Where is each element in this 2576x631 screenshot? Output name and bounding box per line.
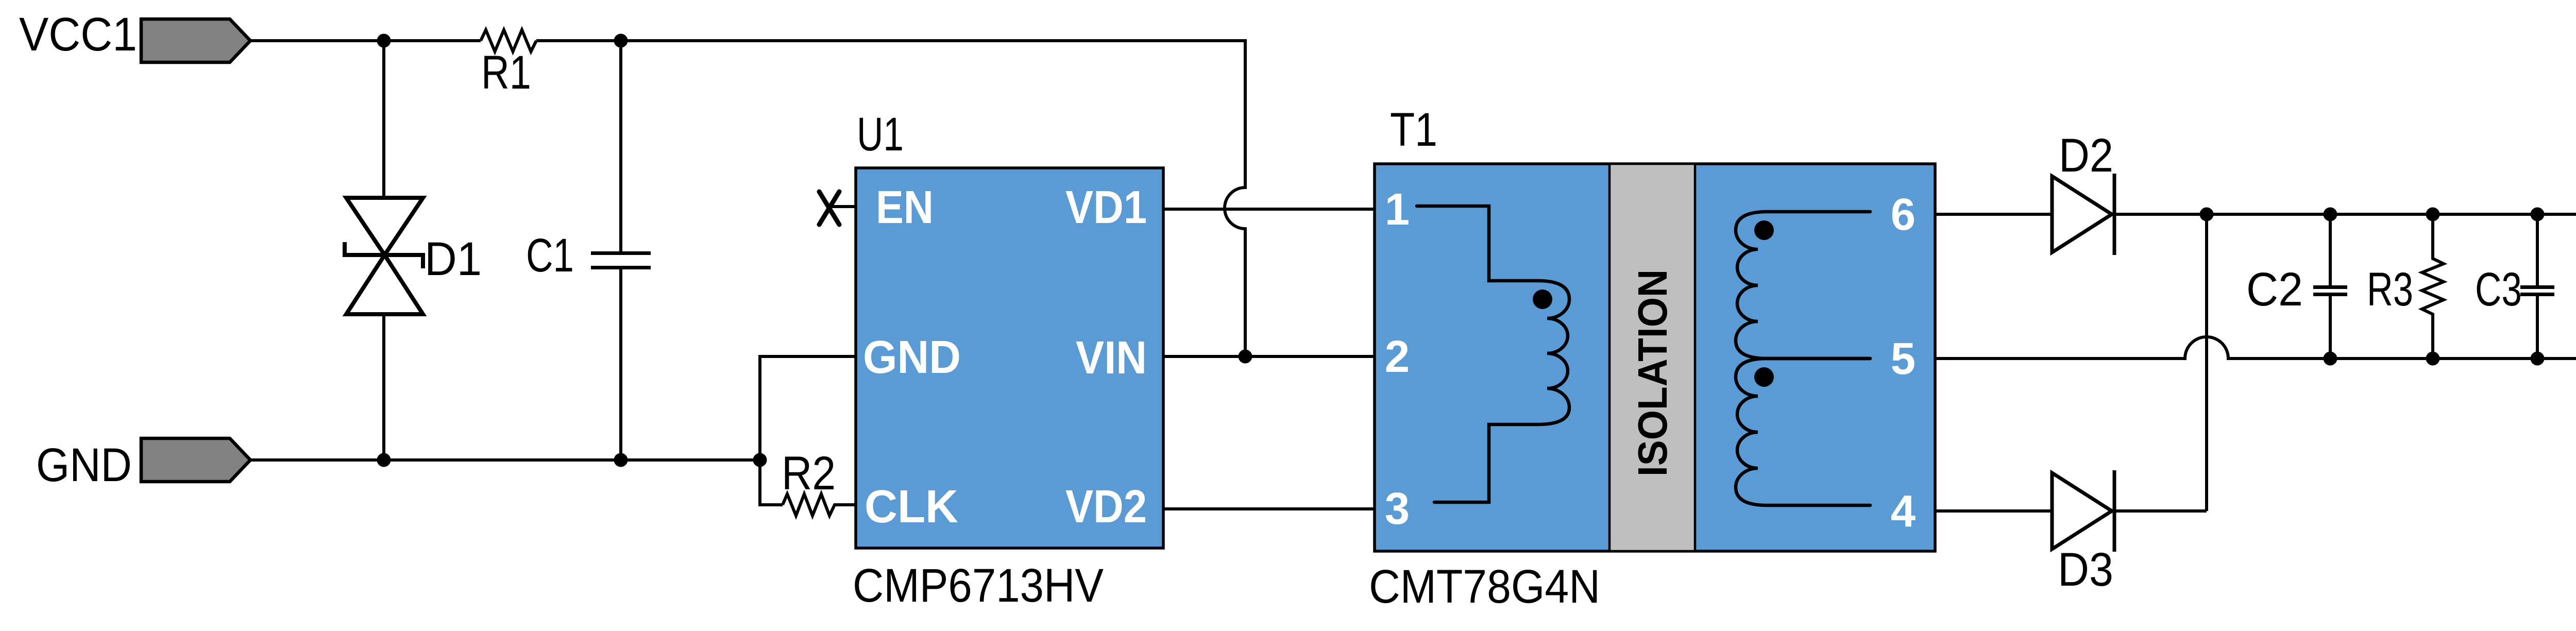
svg-text:D3: D3 [2058, 543, 2113, 596]
svg-text:VIN: VIN [1076, 332, 1147, 384]
svg-text:U1: U1 [857, 108, 904, 161]
svg-text:T1: T1 [1390, 104, 1437, 156]
svg-text:CMP6713HV: CMP6713HV [853, 559, 1104, 612]
svg-text:C2: C2 [2246, 263, 2303, 316]
svg-text:D1: D1 [425, 233, 482, 285]
svg-text:1: 1 [1385, 184, 1410, 234]
svg-text:6: 6 [1891, 190, 1916, 240]
svg-text:5: 5 [1891, 334, 1916, 384]
svg-text:VD2: VD2 [1065, 481, 1147, 533]
svg-text:C1: C1 [526, 229, 574, 282]
svg-text:CLK: CLK [865, 481, 958, 533]
svg-text:GND: GND [36, 439, 132, 491]
svg-text:VD1: VD1 [1065, 182, 1147, 233]
svg-text:2: 2 [1385, 332, 1410, 382]
svg-text:C3: C3 [2475, 263, 2522, 316]
svg-text:VCC1: VCC1 [19, 8, 137, 61]
svg-text:3: 3 [1385, 484, 1410, 534]
svg-text:R2: R2 [782, 447, 836, 500]
svg-text:D2: D2 [2059, 129, 2113, 182]
svg-text:R1: R1 [481, 46, 531, 99]
svg-text:GND: GND [863, 332, 961, 383]
svg-text:4: 4 [1891, 486, 1916, 536]
svg-text:ISOLATION: ISOLATION [1630, 269, 1675, 476]
svg-text:EN: EN [876, 182, 934, 233]
svg-text:CMT78G4N: CMT78G4N [1369, 560, 1600, 613]
svg-text:R3: R3 [2367, 263, 2413, 316]
